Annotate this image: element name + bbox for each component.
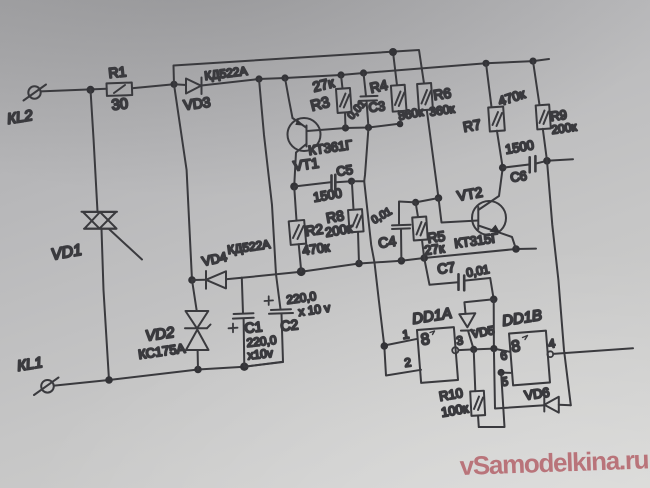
svg-text:VD3: VD3 (182, 94, 211, 113)
diode VD3 (174, 78, 202, 95)
junction dot rail / VT2 emitter (512, 245, 520, 253)
junction dot rail / R9 (529, 58, 536, 65)
svg-text:1500: 1500 (504, 137, 535, 157)
wire long vertical C3 to DD1A inputs (364, 128, 384, 347)
junction dot VD5 / R10 (470, 346, 477, 353)
diode VD5 (459, 313, 475, 349)
resistor R8 (348, 182, 364, 264)
capacitor C5 (294, 175, 351, 190)
capacitor C7 (424, 258, 494, 299)
wire VD1 branch upper (91, 90, 98, 212)
output bubble pin 4 (547, 351, 553, 357)
svg-text:КТ315Г: КТ315Г (453, 230, 499, 251)
junction dot rail / R8 (355, 260, 363, 268)
junction dot KL1 / VD2 (194, 366, 202, 374)
junction dot rail / C2 branch (255, 75, 262, 82)
resistor R7 (486, 63, 505, 167)
svg-text:VD5: VD5 (470, 323, 496, 341)
svg-text:1: 1 (401, 327, 410, 342)
svg-text:С3: С3 (368, 98, 386, 115)
plus sign C1 (229, 324, 238, 333)
wire VT1 collector (294, 153, 296, 187)
svg-text:х10v: х10v (247, 346, 274, 363)
junction dot KL1 / C1 C2 (240, 363, 248, 371)
terminal KL2 (24, 85, 47, 101)
zener VD2 (185, 311, 211, 370)
junction dot R5 top / C4 (412, 199, 419, 206)
svg-text:R7: R7 (462, 116, 483, 135)
capacitor C6 (503, 156, 573, 172)
junction dot pins 1-2 (381, 342, 389, 350)
svg-text:DD1B: DD1B (501, 307, 543, 330)
junction dot R7 bottom / C6 / VT2 collector (499, 164, 507, 172)
wire VT1 emitter up to rail (285, 78, 293, 118)
svg-text:C2: C2 (280, 316, 300, 334)
svg-text:2: 2 (403, 355, 412, 370)
junction dot rail / R3 (337, 71, 344, 78)
junction dot R1 input / VD1 branch (87, 86, 95, 94)
capacitor C3 (360, 73, 378, 128)
svg-text:КД522А: КД522А (226, 237, 271, 257)
svg-text:С6: С6 (509, 168, 528, 185)
resistor R3 (336, 75, 352, 128)
svg-text:360к: 360к (397, 105, 425, 123)
svg-text:360к: 360к (428, 101, 456, 118)
svg-text:27к: 27к (423, 240, 445, 258)
svg-text:0,01: 0,01 (370, 205, 395, 226)
wire VD3 cathode branch down to C2 (259, 79, 281, 309)
wire output pin 4 (553, 348, 633, 354)
resistor R9 on right vertical (533, 61, 551, 161)
wire DD1A pins 1-2 tie (384, 346, 421, 376)
resistor R2 (289, 187, 307, 272)
svg-text:VD6: VD6 (523, 385, 550, 403)
svg-text:8: 8 (420, 331, 431, 349)
wire VD6 to C7 node vertical (494, 349, 545, 409)
wire bypass over VD3 to R6 top (174, 50, 425, 84)
capacitor C2 (244, 309, 293, 367)
junction dot rail / C3 (360, 69, 367, 76)
wire pin 5 stub (501, 372, 510, 374)
svg-text:0,01: 0,01 (465, 262, 491, 280)
junction dot VD3 anode (170, 81, 177, 88)
triac VD1 (82, 212, 118, 229)
svg-text:R6: R6 (432, 85, 452, 103)
svg-text:3: 3 (455, 333, 464, 348)
resistor R4 (391, 52, 407, 124)
svg-text:30: 30 (111, 95, 129, 114)
svg-text:С4: С4 (377, 233, 397, 251)
wire C5 junction to long vertical (352, 180, 365, 182)
junction dot base / C3 vertical (365, 124, 372, 131)
capacitor C4 (392, 202, 416, 261)
junction dot rail / R7 (482, 60, 489, 67)
svg-text:VD1: VD1 (50, 242, 84, 264)
svg-text:C1: C1 (244, 318, 264, 336)
junction dot C6 / right vertical (543, 157, 551, 165)
junction dot bypass / R4 (389, 48, 397, 56)
wire R6 bottom to VT2 base node (435, 194, 443, 202)
wire KL2 to R1 (41, 89, 107, 92)
svg-text:100к: 100к (440, 400, 470, 420)
wire VD4 branch vertical (174, 84, 192, 280)
junction dot rail / R2 (297, 267, 306, 276)
wire R1 to VD3 junction (132, 84, 174, 88)
wire KL1 rail (54, 362, 283, 386)
junction dot C7 / VD5 top (490, 296, 498, 304)
junction dot rail / VT1 emitter (281, 74, 288, 81)
junction dot rail / C4 (398, 257, 406, 265)
svg-text:vSamodelkina.ru: vSamodelkina.ru (459, 444, 649, 481)
junction dot rail / R5 C7 (420, 254, 428, 262)
junction dot collector / C5 / R2 (290, 183, 298, 191)
resistor R5 (412, 202, 428, 258)
transistor VT1 (288, 118, 321, 153)
wire VT1 base (307, 124, 401, 132)
wire pin3 to pin6 (459, 349, 510, 352)
svg-text:С7: С7 (436, 259, 456, 277)
svg-text:VT2: VT2 (456, 184, 484, 204)
svg-text:R1: R1 (108, 63, 128, 81)
svg-text:4: 4 (547, 336, 556, 351)
diode VD6 (544, 397, 571, 413)
wire VD4 junction to VD2 (192, 280, 197, 311)
svg-text:470к: 470к (301, 239, 331, 258)
transistor VT2 (472, 168, 516, 249)
svg-text:КL1: КL1 (16, 354, 44, 375)
svg-text:8: 8 (510, 338, 521, 356)
junction dot VD4 anode branch (188, 276, 196, 284)
junction dot C5 / R8 (348, 178, 355, 185)
svg-text:С5: С5 (335, 162, 354, 179)
svg-text:R4: R4 (368, 77, 389, 96)
svg-text:DD1A: DD1A (411, 305, 453, 328)
svg-text:КL2: КL2 (6, 107, 35, 128)
svg-text:1500: 1500 (312, 185, 343, 205)
resistor R1 (106, 83, 132, 96)
svg-text:КС175А: КС175А (137, 341, 186, 362)
svg-text:200к: 200к (550, 119, 578, 136)
wire C7 junction down to pin6 node (493, 299, 495, 348)
junction dot KL1 / VD1 (105, 376, 113, 384)
resistor R10 (470, 349, 485, 427)
capacitor C1 (233, 278, 254, 367)
svg-text:R3: R3 (309, 94, 332, 115)
junction dot base / R3 (342, 124, 349, 131)
logic gate DD1A (417, 327, 458, 383)
resistor R6 (417, 83, 438, 198)
wire right vertical C6 to VD6 (547, 161, 571, 405)
wire R10 bottom to pin 5 (479, 373, 505, 428)
wire VD1 branch lower (102, 229, 110, 380)
terminal KL1 (34, 378, 59, 396)
wire VT2 base (439, 198, 479, 223)
wire pin 1 (384, 339, 417, 346)
wire C7 junction to VD5 anode (464, 299, 493, 313)
wire VD1 gate (110, 230, 143, 260)
diode VD4 (192, 271, 242, 289)
junction dot base / R4 (397, 121, 404, 128)
plus sign C2 (265, 296, 274, 305)
wire positive rail (VD4 to VT2 emitter) (242, 249, 536, 278)
svg-text:470к: 470к (496, 86, 527, 109)
svg-text:VD4: VD4 (201, 249, 229, 269)
logic gate DD1B (509, 331, 550, 386)
junction dot pin 5 (498, 369, 505, 376)
wire base node to R5/C4 (416, 198, 439, 202)
svg-text:R2: R2 (304, 221, 324, 239)
junction dot C7 branch on pin6 wire (490, 345, 497, 352)
output bubble pin 3 (452, 347, 458, 353)
wire main top rail (202, 59, 550, 86)
